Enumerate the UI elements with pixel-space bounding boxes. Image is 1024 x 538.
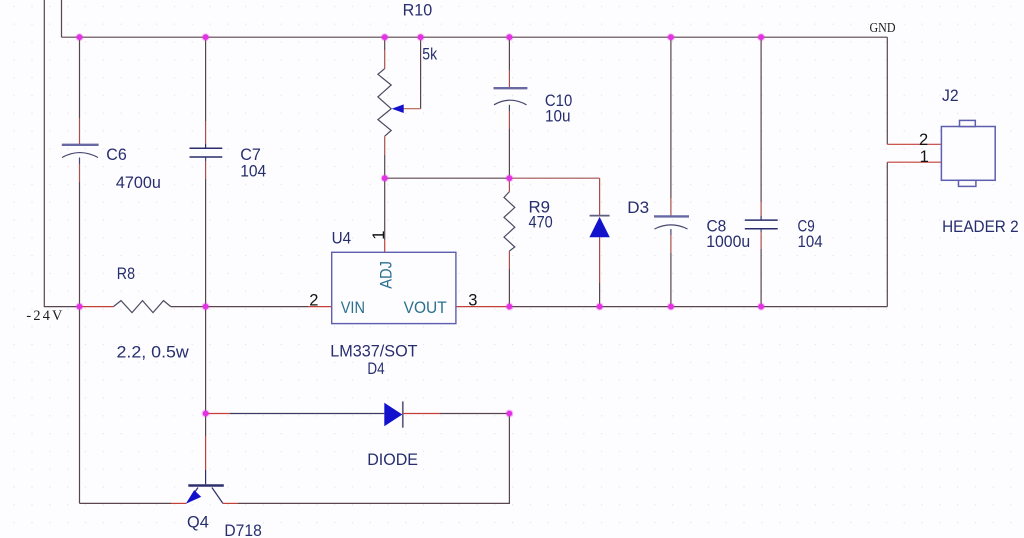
svg-text:2.2, 0.5w: 2.2, 0.5w bbox=[117, 344, 189, 362]
junction top rail at C7 bbox=[202, 33, 210, 41]
junction top rail at C8 bbox=[667, 33, 675, 41]
wire D4 row to anode bbox=[230, 413, 384, 415]
wire R9 stubs bbox=[508, 178, 510, 191]
svg-text:R8: R8 bbox=[117, 265, 135, 283]
svg-text:C7: C7 bbox=[240, 146, 261, 164]
wire J2 pin 2 stub bbox=[887, 143, 941, 145]
capacitor C7 bbox=[190, 148, 223, 157]
junction top rail at C6 bbox=[76, 33, 84, 41]
capacitor C9 bbox=[745, 220, 778, 229]
wire D4 cathode stub bbox=[403, 413, 440, 415]
wire D3 column bbox=[599, 178, 601, 215]
svg-text:104: 104 bbox=[240, 162, 266, 180]
svg-text:1: 1 bbox=[370, 231, 388, 240]
svg-text:U4: U4 bbox=[332, 230, 352, 248]
junction ADJ row at pot bbox=[381, 174, 389, 182]
svg-text:ADJ: ADJ bbox=[378, 261, 396, 289]
svg-text:-24V: -24V bbox=[26, 308, 64, 324]
wire C7 column to Q4 base bbox=[205, 307, 207, 436]
svg-text:LM337/SOT: LM337/SOT bbox=[330, 343, 417, 361]
potentiometer R10 body bbox=[378, 69, 391, 137]
wire D4 row right bbox=[440, 413, 509, 415]
svg-text:D3: D3 bbox=[627, 199, 649, 217]
wire C8 column bbox=[670, 37, 672, 198]
svg-text:D4: D4 bbox=[367, 360, 384, 378]
svg-text:D718: D718 bbox=[224, 522, 261, 538]
wire pot column bottom bbox=[384, 136, 386, 155]
svg-text:470: 470 bbox=[529, 214, 553, 232]
junction main row at -24V bbox=[76, 303, 84, 311]
wire C10 R9 column top bbox=[508, 37, 510, 70]
diode D4 bbox=[384, 401, 403, 427]
svg-text:104: 104 bbox=[798, 233, 823, 251]
wire D4 row left bbox=[206, 413, 230, 415]
wire C7 column bbox=[205, 37, 207, 121]
wire VOUT pin stub bbox=[456, 306, 510, 308]
wire Q4 collector stub bbox=[223, 502, 238, 504]
capacitor C8 bbox=[654, 216, 689, 229]
svg-text:10u: 10u bbox=[545, 108, 571, 126]
svg-text:Q4: Q4 bbox=[187, 513, 209, 531]
wire bottom row left bbox=[80, 502, 172, 504]
svg-text:1: 1 bbox=[920, 148, 929, 166]
svg-text:VOUT: VOUT bbox=[404, 299, 447, 317]
svg-text:HEADER 2: HEADER 2 bbox=[942, 218, 1019, 236]
diode D3 bbox=[589, 216, 609, 238]
capacitor C10 bbox=[494, 88, 528, 105]
junction top rail at C10 bbox=[505, 33, 513, 41]
junction top rail at C9 bbox=[757, 33, 765, 41]
op-amp U1 regulator U4 box bbox=[332, 252, 456, 323]
svg-text:DIODE: DIODE bbox=[367, 451, 418, 469]
wire ADJ pin stub bbox=[384, 240, 386, 252]
svg-text:C6: C6 bbox=[106, 146, 127, 164]
svg-text:GND: GND bbox=[870, 21, 896, 36]
junction main row at C7 bbox=[202, 303, 210, 311]
junction D4 row at mid column bbox=[505, 410, 513, 418]
transistor Q4 bbox=[186, 486, 224, 504]
capacitor C6 bbox=[62, 145, 99, 158]
wire C9 column bbox=[760, 37, 762, 202]
junction D4 row at C7 column bbox=[202, 410, 210, 418]
junction main row at C8 bbox=[667, 303, 675, 311]
svg-text:2: 2 bbox=[919, 131, 928, 149]
wire main row left segment bbox=[80, 306, 114, 308]
R10 wiper arrow bbox=[392, 104, 404, 113]
wire ADJ pin drop bbox=[384, 178, 386, 240]
wire R10 wiper branch bbox=[420, 37, 422, 109]
junction top rail at R10 bbox=[381, 33, 389, 41]
junction top rail at wiper bbox=[417, 33, 425, 41]
wire pot column top bbox=[384, 37, 386, 50]
wire output rise to J2 pin 1 bbox=[886, 162, 888, 306]
wire Q4 emitter stub bbox=[171, 502, 186, 504]
junction main row at R9 bbox=[505, 303, 513, 311]
transistor Q2 base pin bbox=[205, 470, 207, 484]
resistor R8 bbox=[113, 301, 170, 313]
svg-text:J2: J2 bbox=[942, 87, 959, 105]
svg-text:VIN: VIN bbox=[341, 299, 365, 317]
wire -24V feed from top-left bbox=[44, 0, 79, 307]
svg-text:4700u: 4700u bbox=[116, 174, 161, 192]
wire J2 pin 1 stub bbox=[887, 161, 941, 163]
junction main row at D3 bbox=[596, 303, 604, 311]
resistor R9 bbox=[504, 192, 515, 251]
svg-text:1000u: 1000u bbox=[706, 233, 750, 251]
junction ADJ row at R9 bbox=[505, 174, 513, 182]
connector J2 box bbox=[941, 120, 995, 186]
junction main row at C9 bbox=[757, 303, 765, 311]
wire main output row bbox=[509, 306, 887, 308]
wire ADJ row right bbox=[509, 177, 599, 179]
wire C6 column bbox=[79, 37, 81, 118]
svg-text:3: 3 bbox=[468, 291, 477, 309]
svg-text:R10: R10 bbox=[403, 2, 433, 20]
svg-text:5k: 5k bbox=[422, 45, 437, 63]
wire main row R8 to VIN bbox=[171, 306, 308, 308]
wire GND top rail bbox=[62, 36, 888, 38]
wire top stub entering sheet bbox=[61, 0, 63, 37]
svg-text:2: 2 bbox=[309, 291, 318, 309]
wire bottom row right bbox=[238, 414, 509, 504]
wire VIN pin stub bbox=[308, 306, 332, 308]
wire ADJ row bbox=[385, 177, 510, 179]
wire GND drop to J2 pin 2 bbox=[886, 37, 888, 144]
